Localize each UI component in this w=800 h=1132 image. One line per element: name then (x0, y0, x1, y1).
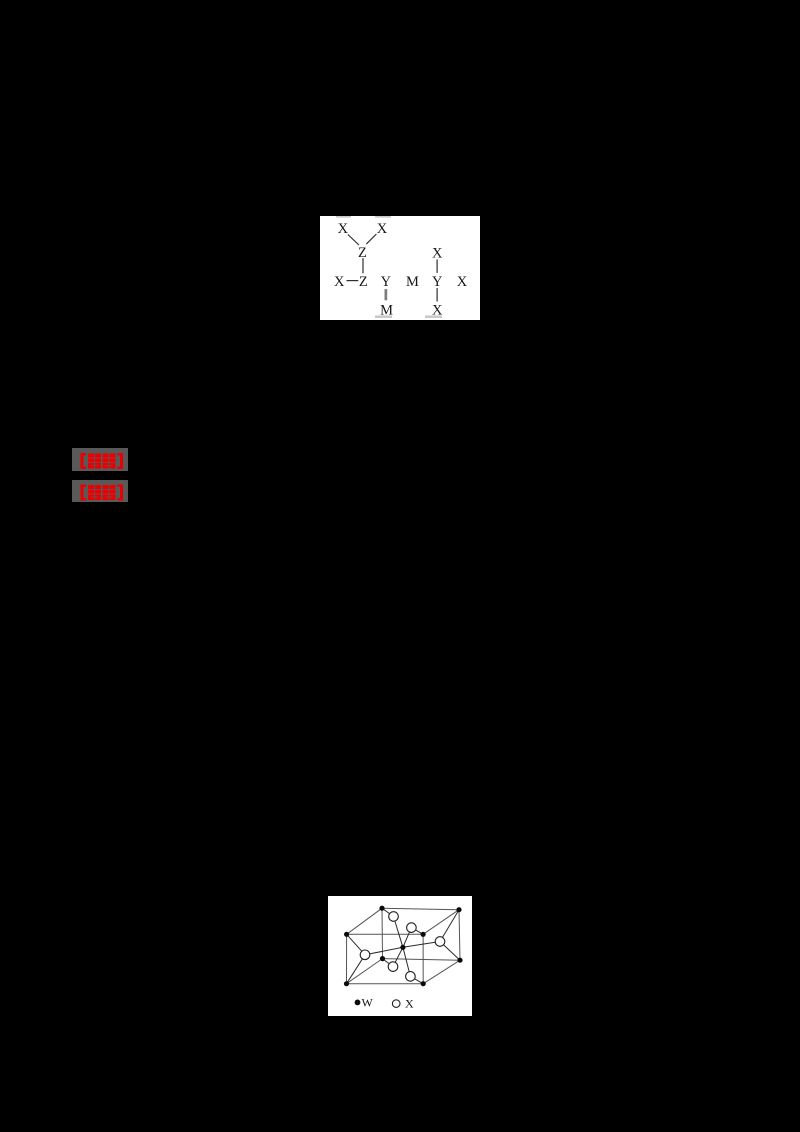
svg-text:M: M (406, 274, 419, 290)
svg-text:W: W (362, 996, 374, 1010)
svg-text:Y: Y (432, 274, 443, 290)
svg-text:Y: Y (381, 274, 392, 290)
svg-text:X: X (338, 221, 349, 237)
svg-text:M: M (380, 303, 393, 319)
svg-text:X: X (334, 274, 345, 290)
svg-text:X: X (457, 274, 468, 290)
svg-text:X: X (432, 245, 443, 261)
svg-text:X: X (405, 996, 414, 1010)
svg-text:Z: Z (359, 274, 368, 290)
svg-text:X: X (377, 221, 388, 237)
svg-text:X: X (432, 303, 443, 319)
svg-text:Z: Z (358, 245, 367, 261)
